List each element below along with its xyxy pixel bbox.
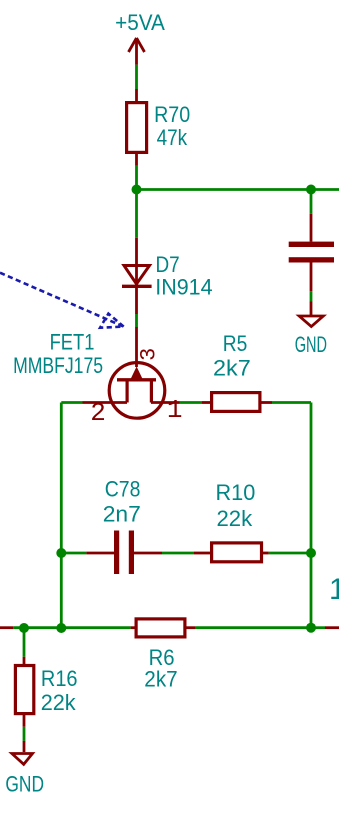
svg-text:MMBFJ175: MMBFJ175	[13, 354, 103, 378]
svg-text:GND: GND	[295, 332, 327, 357]
svg-text:2: 2	[90, 398, 106, 428]
svg-text:47k: 47k	[157, 126, 188, 151]
svg-text:22k: 22k	[217, 506, 254, 531]
svg-text:IN914: IN914	[155, 274, 212, 299]
svg-text:R10: R10	[216, 480, 256, 505]
svg-text:R70: R70	[154, 103, 190, 127]
svg-text:2k7: 2k7	[144, 667, 177, 692]
svg-text:2n7: 2n7	[103, 502, 141, 527]
svg-text:1: 1	[329, 573, 339, 606]
svg-text:R5: R5	[223, 332, 248, 357]
svg-text:2k7: 2k7	[213, 355, 251, 380]
svg-text:GND: GND	[5, 773, 44, 797]
svg-text:1: 1	[167, 395, 183, 425]
svg-text:3: 3	[136, 348, 161, 361]
svg-text:FET1: FET1	[50, 331, 95, 355]
svg-text:C78: C78	[105, 477, 141, 501]
svg-text:R16: R16	[41, 667, 78, 691]
svg-text:+5VA: +5VA	[115, 10, 165, 35]
svg-text:22k: 22k	[41, 690, 76, 715]
